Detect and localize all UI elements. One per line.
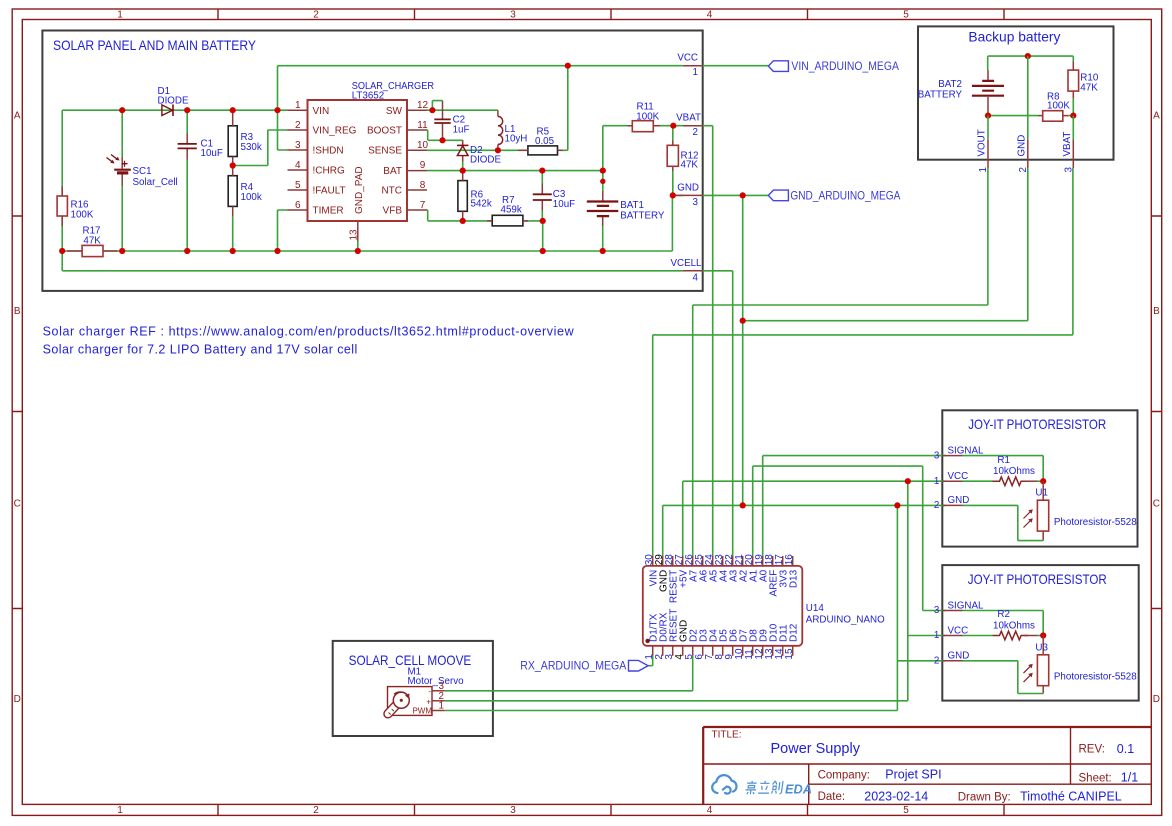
photo1 SIGNAL wire internal — [963, 456, 1044, 482]
svg-text:Sheet:: Sheet: — [1079, 773, 1112, 785]
svg-text:Timothé CANIPEL: Timothé CANIPEL — [1020, 790, 1122, 804]
svg-text:C: C — [1153, 499, 1160, 510]
svg-text:1: 1 — [934, 476, 939, 487]
backup battery top wire — [988, 56, 1074, 70]
wire photo1 SIGNAL to A0 — [763, 456, 946, 556]
photoresistor U3 lead bottom — [1042, 686, 1044, 694]
svg-text:BATTERY: BATTERY — [918, 90, 963, 101]
wire R3-R4 to VIN_REG — [233, 130, 288, 166]
wire R7 to C3 bottom — [523, 220, 543, 222]
ruler letters right — [1153, 111, 1160, 706]
LT3652 pin 9 BAT stub — [407, 170, 427, 172]
U14 pin 17 3V3 stub — [782, 556, 784, 566]
svg-text:U14: U14 — [806, 603, 825, 614]
svg-text:VCC: VCC — [677, 53, 698, 64]
U14 pin 11 D8 stub — [752, 646, 754, 656]
svg-text:TIMER: TIMER — [313, 206, 344, 217]
U14 pin 9 D6 stub — [732, 646, 734, 656]
U14 pin 25 A6 stub — [702, 556, 704, 566]
svg-text:-: - — [428, 687, 431, 696]
junction backup top — [1025, 53, 1031, 59]
svg-text:5: 5 — [903, 10, 909, 21]
svg-text:100K: 100K — [1047, 100, 1070, 111]
svg-text:VFB: VFB — [383, 206, 403, 217]
U14 pin 30 VIN stub — [652, 556, 654, 566]
svg-text:C: C — [14, 499, 21, 510]
svg-text:JOY-IT PHOTORESISTOR: JOY-IT PHOTORESISTOR — [968, 417, 1106, 432]
svg-text:2: 2 — [934, 656, 939, 667]
wire R8 right to VBAT node — [1068, 115, 1073, 117]
svg-text:542k: 542k — [471, 199, 492, 210]
capacitor C3 — [533, 184, 552, 211]
photoresistor U3 lead top — [1042, 636, 1044, 655]
svg-text:10yH: 10yH — [505, 134, 528, 145]
svg-text:1: 1 — [934, 630, 939, 641]
wire VBAT down to arduino A5 — [703, 126, 713, 556]
svg-text:1/1: 1/1 — [1121, 771, 1138, 785]
svg-text:VCELL: VCELL — [670, 258, 702, 269]
U14 pin 13 D10 stub — [772, 646, 774, 656]
wire left vertical to R16 — [61, 110, 63, 251]
U14 pin 5 D2 stub — [692, 646, 694, 656]
main box pin 4 VCELL stub — [683, 270, 703, 272]
U14 pin 21 A2 stub — [742, 556, 744, 566]
wire arduino TX to RX flag — [648, 656, 653, 666]
svg-text:VBAT: VBAT — [676, 113, 701, 124]
ruler numbers top — [117, 10, 909, 21]
svg-text:SENSE: SENSE — [368, 146, 402, 157]
EasyEDA logo glyph chuang — [771, 781, 783, 794]
photoresistor U1 arrows — [1024, 509, 1033, 527]
wire VFB to R6 bottom — [427, 210, 492, 221]
svg-text:4: 4 — [707, 805, 713, 816]
wire C1 branch — [186, 110, 188, 251]
svg-text:Solar_Cell: Solar_Cell — [133, 177, 178, 188]
motor M1 pin 3 stub — [432, 690, 445, 692]
resistor R1 zigzag — [993, 477, 1029, 486]
svg-text:!FAULT: !FAULT — [313, 186, 346, 197]
svg-text:DIODE: DIODE — [158, 96, 189, 107]
svg-text:+: + — [426, 697, 431, 706]
svg-text:VBAT: VBAT — [1062, 132, 1073, 157]
svg-text:GND: GND — [948, 495, 970, 506]
svg-text:EDA: EDA — [785, 782, 812, 797]
module box Backup battery — [918, 26, 1114, 159]
svg-text:GND: GND — [677, 182, 699, 193]
diode D2 — [457, 140, 468, 161]
photo1 pin 3 SIGNAL stub — [942, 455, 962, 457]
wire battery BAT1 top — [602, 171, 604, 191]
EasyEDA logo glyph li — [758, 781, 771, 793]
wire backup GND vertical inside — [1027, 56, 1029, 140]
svg-text:REV:: REV: — [1079, 744, 1105, 756]
LT3652 pin 6 TIMER stub — [288, 209, 308, 211]
svg-text:Projet SPI: Projet SPI — [885, 768, 941, 782]
op-amp U14 ARDUINO_NANO chip body — [643, 566, 803, 646]
photo1 VCC wire to R1 — [963, 480, 993, 482]
svg-text:VIN_REG: VIN_REG — [313, 126, 357, 137]
svg-text:1: 1 — [117, 10, 123, 21]
motor M1 arm — [388, 702, 400, 715]
solar cell SC1 — [107, 155, 131, 186]
svg-text:1: 1 — [295, 100, 301, 111]
wire R5 right to VCC rail — [558, 66, 568, 151]
svg-text:A: A — [1153, 111, 1160, 122]
photo2 pin 1 VCC stub — [942, 635, 962, 637]
LT3652 pin 7 VFB stub — [407, 209, 427, 211]
junction VBAT node — [1070, 113, 1076, 119]
resistor R10 — [1068, 62, 1079, 99]
LT3652 pin 12 SW stub — [407, 109, 427, 111]
svg-text:SOLAR PANEL AND MAIN BATTERY: SOLAR PANEL AND MAIN BATTERY — [53, 38, 256, 53]
wire VBAT down to pin — [1072, 116, 1074, 140]
U14 pin 1 D1/TX stub — [652, 646, 654, 656]
svg-text:0.1: 0.1 — [1117, 742, 1134, 756]
svg-text:6: 6 — [295, 200, 301, 211]
U14 pin 28 RESET stub — [672, 556, 674, 566]
LT3652 pin 13 GND_PAD stub — [357, 221, 359, 241]
wire R12 top — [672, 126, 674, 141]
U14 pin 18 AREF stub — [772, 556, 774, 566]
wire VCC net down to photo2 and servo — [908, 481, 946, 701]
wire servo pin1 to GND net — [445, 710, 898, 712]
photo1 pin 2 GND stub — [942, 504, 962, 506]
photo1 pin 1 VCC stub — [942, 480, 962, 482]
svg-text:10kOhms: 10kOhms — [993, 466, 1035, 477]
ruler ticks right — [1151, 216, 1161, 609]
EasyEDA logo glyph jia — [745, 781, 757, 794]
photoresistor U1 lead bottom — [1042, 531, 1044, 541]
wire R1 to junction — [1025, 480, 1038, 482]
junction R1-U1 — [1040, 478, 1046, 484]
junction small dot battery top — [600, 179, 605, 184]
wire BAT line — [427, 170, 603, 172]
backup pin 2 GND stub — [1027, 140, 1029, 168]
resistor R5 — [518, 146, 563, 155]
svg-text:SIGNAL: SIGNAL — [948, 445, 984, 456]
wire R11 right to VBAT pin — [658, 125, 683, 127]
motor M1 servo body — [388, 687, 433, 716]
svg-text:BAT2: BAT2 — [938, 79, 962, 90]
ruler ticks bottom — [218, 804, 1004, 815]
wire GND to GND_ARDUINO_MEGA flag — [703, 194, 769, 196]
wire ground rail bottom — [62, 195, 672, 251]
svg-text:1: 1 — [439, 701, 444, 712]
svg-text:7: 7 — [420, 200, 426, 211]
svg-text:9: 9 — [420, 160, 426, 171]
svg-text:VIN_ARDUINO_MEGA: VIN_ARDUINO_MEGA — [791, 59, 899, 73]
main box pin 2 VBAT stub — [683, 125, 703, 127]
module box JOY-IT PHOTORESISTOR 1 — [942, 410, 1137, 546]
resistor R11 — [628, 121, 661, 132]
svg-text:D12: D12 — [788, 623, 799, 642]
module box SOLAR PANEL AND MAIN BATTERY — [42, 31, 702, 291]
svg-text:47K: 47K — [1080, 82, 1098, 93]
battery BAT1 — [587, 191, 619, 226]
wire arduino +5V VCC line — [683, 481, 946, 556]
U14 pin 8 D5 stub — [722, 646, 724, 656]
net flag VIN_ARDUINO_MEGA — [768, 61, 788, 72]
U14 pin 20 A1 stub — [752, 556, 754, 566]
wire BOOST to C2 bottom and D2 — [427, 130, 463, 140]
junction GND photo1 — [894, 502, 900, 508]
photoresistor U3 arrows — [1024, 664, 1033, 682]
motor M1 pin 2 stub — [432, 700, 445, 702]
svg-text:VCC: VCC — [948, 471, 969, 482]
backup pin 1 VOUT stub — [987, 140, 989, 168]
svg-text:15: 15 — [784, 648, 795, 660]
junction R2-U3 — [1040, 632, 1046, 638]
wire VCC rail — [278, 65, 683, 67]
svg-text:10uF: 10uF — [553, 199, 575, 210]
svg-text:B: B — [1153, 306, 1160, 317]
svg-text:R1: R1 — [997, 455, 1010, 466]
main box pin 1 VCC stub — [683, 65, 703, 67]
svg-text:Solar charger REF : https://ww: Solar charger REF : https://www.analog.c… — [43, 325, 575, 339]
diode D1 — [162, 104, 173, 116]
U14 pin 6 D3 stub — [702, 646, 704, 656]
photoresistor U1 body — [1037, 500, 1048, 531]
svg-text:NTC: NTC — [381, 186, 402, 197]
LT3652 pin 8 NTC stub — [407, 189, 427, 191]
svg-text:JOY-IT PHOTORESISTOR: JOY-IT PHOTORESISTOR — [968, 572, 1107, 587]
resistor R8 — [1038, 111, 1068, 122]
svg-text:47K: 47K — [681, 160, 699, 171]
svg-text:D13: D13 — [788, 569, 799, 588]
wire R11 left — [603, 126, 628, 171]
svg-text:SIGNAL: SIGNAL — [948, 600, 984, 611]
svg-text:2: 2 — [313, 805, 319, 816]
svg-text:GND: GND — [1016, 135, 1027, 157]
backup pin 3 VBAT stub — [1072, 140, 1074, 168]
svg-text:13: 13 — [349, 229, 360, 241]
junction dots main box — [59, 63, 676, 255]
EasyEDA logo cloud — [712, 775, 736, 794]
title block border — [703, 727, 1151, 804]
wire VCELL inside box — [62, 251, 683, 271]
svg-text:2023-02-14: 2023-02-14 — [864, 790, 928, 804]
motor M1 rotation arrow — [394, 692, 408, 695]
junction GND-flag line — [740, 192, 746, 198]
svg-text:100k: 100k — [241, 192, 262, 203]
svg-text:Solar charger for 7.2 LIPO Bat: Solar charger for 7.2 LIPO Battery and 1… — [43, 343, 358, 357]
svg-text:Motor_Servo: Motor_Servo — [408, 676, 465, 687]
op-amp U? LT3652 solar charger chip body — [308, 100, 408, 221]
LT3652 pin 5 !FAULT stub — [288, 189, 308, 191]
resistor R4 — [228, 166, 237, 217]
svg-text:RX_ARDUINO_MEGA: RX_ARDUINO_MEGA — [520, 659, 626, 673]
capacitor C2 — [434, 101, 450, 141]
wire SC1 branch — [121, 110, 123, 251]
wire GND net down to photo2 and servo — [897, 505, 945, 710]
U14 pin 4 GND stub — [682, 646, 684, 656]
motor M1 rotor center — [400, 699, 403, 702]
svg-text:4: 4 — [693, 272, 699, 283]
U14 pin 19 A0 stub — [762, 556, 764, 566]
svg-text:U1: U1 — [1035, 488, 1048, 499]
U14 pin 27 +5V stub — [682, 556, 684, 566]
svg-text:!SHDN: !SHDN — [313, 146, 344, 157]
svg-text:TITLE:: TITLE: — [712, 730, 742, 741]
wire VCC-SHDN vertical — [278, 66, 288, 150]
svg-text:D: D — [14, 694, 21, 705]
resistor R3 — [228, 110, 237, 165]
svg-text:11: 11 — [417, 120, 428, 131]
U14 pin1 marker dot — [645, 639, 649, 643]
svg-text:3: 3 — [934, 450, 940, 461]
svg-text:GND: GND — [948, 651, 970, 662]
wire C3 branch — [541, 171, 543, 251]
svg-text:U3: U3 — [1035, 642, 1048, 653]
svg-text:3: 3 — [1063, 167, 1074, 173]
svg-text:4: 4 — [707, 10, 713, 21]
svg-text:8: 8 — [420, 180, 426, 191]
wire servo pin3 to arduino D2 — [445, 656, 693, 691]
svg-text:2: 2 — [934, 500, 939, 511]
svg-text:3: 3 — [693, 197, 699, 208]
svg-text:Drawn By:: Drawn By: — [958, 792, 1011, 804]
svg-text:BAT: BAT — [383, 166, 402, 177]
svg-text:Date:: Date: — [818, 791, 846, 803]
svg-text:100K: 100K — [71, 209, 94, 220]
LT3652 pin 1 VIN stub — [288, 109, 308, 111]
wire R10 bottom to VBAT node — [1072, 98, 1074, 116]
svg-text:B: B — [14, 306, 21, 317]
wire TIMER down to ground rail — [278, 210, 288, 251]
ruler ticks left — [12, 216, 22, 609]
junction VCC photo1 — [905, 478, 911, 484]
svg-text:PWM: PWM — [412, 706, 432, 715]
net flag GND_ARDUINO_MEGA — [768, 190, 788, 201]
svg-text:10kOhms: 10kOhms — [993, 620, 1035, 631]
svg-text:Photoresistor-5528: Photoresistor-5528 — [1054, 671, 1137, 682]
main box pin 3 GND stub — [676, 194, 703, 196]
wire VOUT down to pin — [987, 116, 989, 140]
svg-text:47K: 47K — [83, 235, 101, 246]
svg-text:D: D — [1153, 694, 1160, 705]
svg-text:BOOST: BOOST — [367, 126, 402, 137]
ruler numbers bottom — [117, 805, 909, 816]
svg-text:VIN: VIN — [313, 106, 330, 117]
resistor R2 zigzag — [993, 631, 1029, 640]
wire photo2 SIGNAL to A1 — [753, 466, 946, 610]
U14 pin 16 D13 stub — [792, 556, 794, 566]
wire R2 to junction — [1025, 635, 1038, 637]
svg-text:1: 1 — [693, 67, 698, 78]
svg-text:10uF: 10uF — [201, 148, 223, 159]
wire arduino GND to photoresistors GND — [663, 505, 946, 556]
photo2 SIGNAL wire internal — [963, 611, 1044, 636]
photoresistor U3 body — [1037, 655, 1048, 686]
svg-text:3: 3 — [510, 10, 516, 21]
resistor R17 — [67, 245, 118, 256]
photo1 GND wire internal — [963, 505, 1044, 540]
svg-text:GND_PAD: GND_PAD — [354, 166, 365, 214]
U14 pin 29 GND stub — [662, 556, 664, 566]
svg-text:R2: R2 — [997, 609, 1010, 620]
wire SW node — [427, 101, 498, 111]
LT3652 pin 2 VIN_REG stub — [288, 129, 308, 131]
junction GND net end — [740, 502, 746, 508]
svg-text:3: 3 — [934, 605, 940, 616]
inductor L1 — [498, 110, 503, 150]
U14 pin 15 D12 stub — [792, 646, 794, 656]
svg-text:A: A — [14, 111, 21, 122]
junction GND backup — [740, 318, 746, 324]
resistor R12 — [667, 141, 678, 172]
photo2 GND wire internal — [963, 661, 1044, 694]
resistor R6 — [458, 171, 467, 221]
U14 pin 14 D11 stub — [782, 646, 784, 656]
ruler letters left — [14, 111, 21, 706]
module box JOY-IT PHOTORESISTOR 2 — [942, 565, 1138, 701]
wire backup VBAT to arduino VIN — [653, 168, 1073, 556]
resistor R7 — [487, 215, 528, 226]
svg-text:!CHRG: !CHRG — [313, 166, 345, 177]
svg-text:GND_ARDUINO_MEGA: GND_ARDUINO_MEGA — [790, 188, 900, 202]
LT3652 pin 4 !CHRG stub — [288, 169, 308, 171]
U14 pin 3 RESET stub — [672, 646, 674, 656]
svg-text:VOUT: VOUT — [977, 129, 988, 156]
wire VCELL down to arduino A3 — [703, 271, 733, 556]
LT3652 pin 3 !SHDN stub — [288, 149, 308, 151]
svg-text:LT3652: LT3652 — [352, 91, 385, 102]
svg-text:459k: 459k — [501, 204, 522, 215]
svg-text:DIODE: DIODE — [470, 155, 501, 166]
wire GND net vertical — [742, 195, 744, 505]
wire backup GND to GND net — [743, 168, 1028, 321]
wire VOUT node row R8 — [988, 115, 1038, 117]
photo2 pin 2 GND stub — [942, 660, 962, 662]
battery BAT2 — [972, 70, 1004, 116]
svg-text:Backup battery: Backup battery — [968, 30, 1060, 45]
svg-text:ARDUINO_NANO: ARDUINO_NANO — [806, 614, 885, 625]
photoresistor U1 lead top — [1042, 481, 1044, 500]
U14 pin 26 A7 stub — [692, 556, 694, 566]
svg-text:1uF: 1uF — [453, 125, 470, 136]
svg-text:0.05: 0.05 — [535, 136, 555, 147]
svg-text:Company:: Company: — [818, 770, 870, 782]
svg-text:5: 5 — [903, 805, 909, 816]
wire R4 bottom — [232, 216, 234, 251]
svg-text:100K: 100K — [636, 111, 659, 122]
wire VCC to VIN_ARDUINO_MEGA flag — [703, 65, 769, 67]
junction VOUT node — [985, 113, 991, 119]
svg-text:3: 3 — [510, 805, 516, 816]
U14 pin 7 D4 stub — [712, 646, 714, 656]
photo2 VCC wire to R2 — [963, 635, 993, 637]
photo2 pin 3 SIGNAL stub — [942, 610, 962, 612]
svg-text:2: 2 — [693, 127, 698, 138]
LT3652 pin 11 BOOST stub — [407, 129, 427, 131]
svg-text:1: 1 — [978, 167, 989, 172]
svg-text:BAT1: BAT1 — [620, 200, 644, 211]
motor M1 rotor circle — [393, 692, 409, 708]
svg-text:BATTERY: BATTERY — [620, 211, 665, 222]
wire SENSE line — [427, 149, 528, 151]
svg-text:2: 2 — [313, 10, 319, 21]
capacitor C1 — [178, 134, 197, 160]
svg-text:2: 2 — [1018, 167, 1029, 172]
LT3652 pin 10 SENSE stub — [407, 149, 427, 151]
U14 pin 10 D7 stub — [742, 646, 744, 656]
svg-text:2: 2 — [295, 120, 301, 131]
wire servo pin2 to VCC net — [445, 700, 908, 702]
svg-text:530k: 530k — [241, 142, 262, 153]
svg-text:VCC: VCC — [948, 625, 969, 636]
net flag RX_ARDUINO_MEGA — [629, 660, 649, 671]
svg-text:5: 5 — [295, 180, 301, 191]
